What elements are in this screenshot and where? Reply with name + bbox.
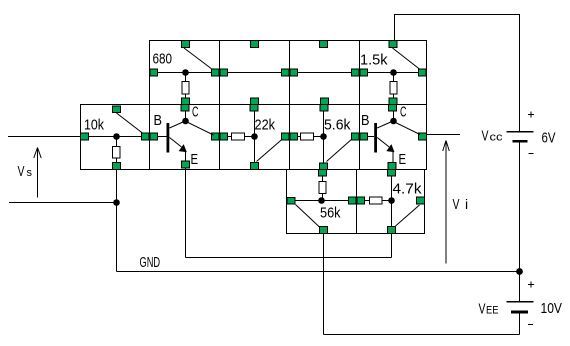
diagonal 1.5k pad link <box>393 48 423 71</box>
grid box A3 <box>290 41 360 105</box>
wire 56k cell bus <box>292 200 393 202</box>
svg-text:cc: cc <box>490 132 504 144</box>
pad A2/B2 upper <box>251 98 259 105</box>
wire 22k branch vertical <box>254 111 256 166</box>
pad 1.5k/Q2C lower <box>389 105 397 112</box>
wire input line 1 <box>8 136 81 138</box>
svg-text:10V: 10V <box>541 300 563 317</box>
svg-text:V: V <box>482 128 489 145</box>
transistor Q1 collector out diagonal <box>188 123 214 136</box>
battery Vcc plates <box>507 132 534 143</box>
node dot 22k <box>251 133 258 140</box>
svg-text:B: B <box>154 112 163 129</box>
grid box B2 (22k cell) <box>220 105 290 170</box>
diagonal 680 pad link <box>184 48 215 71</box>
svg-text:E: E <box>399 151 407 168</box>
wire Q2 collector output <box>427 134 461 136</box>
pad B1/B2 pair right <box>220 133 228 140</box>
pad A1/A2 pair right <box>220 69 228 76</box>
pad B4 right <box>419 133 427 140</box>
pad A2 top <box>251 41 259 48</box>
node dot 4.7k <box>388 197 395 204</box>
wire Q1 emitter down <box>185 152 187 258</box>
diagonal 10k pad link <box>117 113 146 135</box>
pad A2/A3 pair right <box>290 69 298 76</box>
svg-text:s: s <box>27 167 33 179</box>
wire 10k drop to GND rail <box>116 137 118 272</box>
wire top rail to Vcc battery <box>395 15 520 132</box>
pad B3/B4 pair left <box>352 133 360 140</box>
wire 4.7k vertical <box>391 170 393 258</box>
diagonal 22k pad link <box>257 139 284 162</box>
pad A4 top <box>389 41 397 48</box>
pad A2/B2 lower <box>250 105 258 112</box>
svg-text:6V: 6V <box>542 130 556 147</box>
svg-text:EE: EE <box>486 305 499 317</box>
resistor 1.5k <box>390 82 397 95</box>
pad A3 top <box>320 41 328 48</box>
pad Q1 emitter <box>182 161 190 168</box>
wire emitter return rail <box>186 257 392 259</box>
pad B0 bottom <box>113 163 121 170</box>
svg-text:C: C <box>400 104 407 121</box>
svg-text:22k: 22k <box>255 117 276 134</box>
pad A4 right <box>419 69 427 76</box>
wire base row Q1 <box>81 136 167 138</box>
resistor 56k <box>319 182 326 194</box>
grid box A2 <box>220 41 290 105</box>
transistor Q1 emitter arrowhead <box>179 145 186 152</box>
wire Vcc minus to GND node <box>519 143 521 272</box>
pad C1 bottom <box>320 227 328 234</box>
minus sign VEE <box>528 324 533 326</box>
node dot input line 2 <box>113 199 120 206</box>
pad A3/B3 lower <box>320 105 328 112</box>
wire bottom VEE return <box>324 334 520 336</box>
pad Q2E/C2 upper <box>388 163 396 170</box>
wire Vcc bus row A <box>150 72 427 74</box>
diagonal 4.7k pad link <box>396 205 420 226</box>
diagonal 56k pad link <box>296 205 321 228</box>
svg-text:GND: GND <box>140 254 161 271</box>
pad B2/B3 pair left <box>282 133 290 140</box>
svg-text:56k: 56k <box>320 205 341 222</box>
node dot GND junction <box>516 268 523 275</box>
wire input line 2 <box>9 202 117 204</box>
diagonal 5.6k pad link <box>327 139 353 162</box>
resistor 22k <box>232 133 245 140</box>
pad B3/B4 pair right <box>360 133 368 140</box>
grid box B3 (5.6k cell) <box>290 105 360 170</box>
resistor 680 <box>182 82 189 95</box>
svg-text:i: i <box>465 196 468 212</box>
plus sign Vcc <box>528 112 534 118</box>
svg-text:B: B <box>361 112 370 129</box>
grid box C1 (56k cell) <box>287 170 357 234</box>
pad A3/B3 upper <box>321 98 329 105</box>
pad C2 bottom <box>388 227 396 234</box>
minus sign Vcc <box>529 153 534 155</box>
grid box A4 (1.5k cell) <box>360 41 427 105</box>
transistor Q2 emitter lead <box>377 138 389 148</box>
pad C2 right <box>417 197 425 204</box>
battery VEE plates <box>507 302 534 314</box>
grid box A1 (680 cell) <box>150 41 220 105</box>
pad B3/C1 upper <box>320 163 328 170</box>
transistor Q2 bar <box>374 123 377 153</box>
wire 5.6k branch horizontal <box>290 136 324 138</box>
transistor Q2 emitter arrowhead <box>387 145 394 152</box>
pad A1/A2 pair left <box>212 69 220 76</box>
transistor Q2 collector lead <box>377 122 391 128</box>
wire 56k drop to bottom rail <box>323 234 325 335</box>
pad Q2E/C2 lower <box>388 170 396 177</box>
pad B2 bottom <box>251 163 259 170</box>
transistor Q1 bar <box>167 123 170 153</box>
pad A1 top <box>182 41 190 48</box>
pad A3/A4 pair left <box>352 69 360 76</box>
pad B0/B1 pair left <box>142 133 150 140</box>
wire GND rail <box>117 271 520 273</box>
wire Q2 emitter down <box>392 152 394 170</box>
grid box B0 (10k cell) <box>81 105 150 170</box>
pad B3/C1 lower <box>319 170 327 177</box>
resistor 4.7k <box>370 197 383 204</box>
plus sign VEE <box>528 282 534 288</box>
node dot Q2 collector <box>390 118 397 125</box>
node dot Q1 collector <box>182 118 189 125</box>
pad B1/B2 pair left <box>212 133 220 140</box>
node dot 5.6k <box>320 133 327 140</box>
pad B0/B1 pair right <box>150 133 158 140</box>
wire VEE minus down <box>519 313 521 335</box>
resistor 5.6k <box>301 133 314 140</box>
pad B0 left <box>81 133 89 140</box>
grid box B1 (Q1 cell) <box>150 105 220 170</box>
wire 22k branch horizontal <box>220 136 255 138</box>
svg-text:5.6k: 5.6k <box>324 117 351 134</box>
svg-text:E: E <box>191 151 199 168</box>
svg-text:10k: 10k <box>84 117 104 134</box>
grid box B4 (Q2 cell) <box>360 105 427 170</box>
svg-text:1.5k: 1.5k <box>360 52 388 69</box>
grid box C2 (4.7k cell) <box>357 170 425 234</box>
pad 680/Q1C upper <box>182 98 190 105</box>
node dot 56k <box>318 197 325 204</box>
pad 1.5k/Q2C upper <box>389 98 397 105</box>
wire 680 drop to Q1 collector <box>185 73 187 122</box>
pad 680/Q1C lower <box>181 105 189 112</box>
svg-text:C: C <box>192 104 199 121</box>
svg-text:V: V <box>479 301 486 318</box>
transistor Q2 collector out diagonal <box>396 123 421 135</box>
source arrow Vs <box>34 148 41 198</box>
svg-text:4.7k: 4.7k <box>393 181 423 198</box>
transistor Q1 emitter lead <box>170 138 182 148</box>
node dot 680/Vcc bus <box>182 69 189 76</box>
wire base row Q2 <box>360 136 375 138</box>
svg-text:V: V <box>18 163 25 180</box>
pad B2/B3 pair right <box>290 133 298 140</box>
node dot 10k/base1 <box>113 133 120 140</box>
pad A1 left <box>150 69 158 76</box>
wire 56k resistor stub <box>322 177 324 201</box>
output arrow Vi <box>443 141 450 264</box>
pad B0 top <box>113 106 121 113</box>
transistor Q1 collector lead <box>170 122 184 128</box>
pad C1/C2 pair right <box>357 197 365 204</box>
pad C1/C2 pair left <box>349 197 357 204</box>
pad C1 left <box>287 198 295 205</box>
wire 5.6k branch vertical <box>323 111 325 170</box>
svg-text:V: V <box>453 196 460 213</box>
pad A3/A4 pair right <box>360 69 368 76</box>
pad A2/A3 pair left <box>282 69 290 76</box>
svg-text:680: 680 <box>153 51 173 68</box>
wire 1.5k drop to Q2 collector <box>393 73 395 122</box>
node dot 1.5k/Vcc bus <box>390 69 397 76</box>
resistor 10k <box>113 147 121 159</box>
wire GND node to VEE plus <box>519 272 521 302</box>
